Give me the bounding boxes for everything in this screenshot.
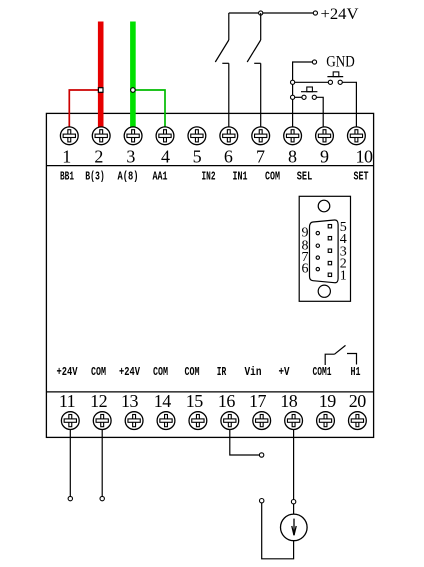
terminal point IR plug <box>259 453 263 457</box>
svg-text:AA1: AA1 <box>153 170 168 184</box>
DB9 connector J1 outline <box>299 196 350 301</box>
DB9 pin 5 <box>328 225 331 228</box>
wire terminal 12 lead <box>101 430 103 497</box>
svg-text:A(8): A(8) <box>118 170 139 184</box>
svg-text:COM: COM <box>265 170 280 184</box>
terminal 11 screw <box>61 412 79 430</box>
terminal 18 screw <box>285 412 303 430</box>
DB9 pin 9 <box>316 231 319 234</box>
wire terminal 11 lead <box>69 430 71 497</box>
terminal point sensor minus <box>260 499 264 503</box>
wire thick green to terminal 3 <box>130 22 136 128</box>
current source / sensor M1 <box>281 514 308 541</box>
svg-text:18: 18 <box>280 391 298 411</box>
svg-text:1: 1 <box>62 147 71 167</box>
pushbutton SB2 (SEL) <box>295 87 318 99</box>
svg-text:6: 6 <box>224 147 233 167</box>
terminal point +24V <box>313 11 317 15</box>
svg-text:H1: H1 <box>351 365 361 379</box>
node green junction <box>131 88 136 93</box>
terminal 19 screw <box>317 412 335 430</box>
DB9 pin 6 <box>316 267 319 270</box>
svg-text:SET: SET <box>354 170 369 184</box>
wire thick red to terminal 2 <box>98 22 104 128</box>
terminal 16 screw <box>221 412 239 430</box>
terminal 15 screw <box>189 412 207 430</box>
svg-text:19: 19 <box>319 391 337 411</box>
DB9 pin 2 <box>328 261 331 264</box>
svg-text:IN2: IN2 <box>202 170 216 184</box>
svg-text:16: 16 <box>218 391 236 411</box>
svg-text:8: 8 <box>288 147 297 167</box>
wire thin green terminal 4 branch <box>133 90 165 128</box>
svg-text:2: 2 <box>94 147 103 167</box>
svg-text:20: 20 <box>349 391 367 411</box>
wire thin red terminal 1 branch <box>69 90 100 128</box>
svg-text:IN1: IN1 <box>233 170 248 184</box>
wire GND junction to pushbutton SB1 <box>293 81 329 83</box>
terminal 12 screw <box>93 412 111 430</box>
node junction on +24V bus <box>259 11 263 15</box>
svg-text:Vin: Vin <box>245 365 262 379</box>
terminal block body U1 <box>46 113 373 437</box>
switch S2 (IN1) <box>247 13 261 63</box>
wire switch S1 to terminal 6 <box>228 63 230 127</box>
terminal point GND <box>312 60 316 64</box>
svg-text:GND: GND <box>326 53 355 70</box>
svg-text:1: 1 <box>340 268 347 283</box>
svg-text:COM: COM <box>185 365 200 379</box>
svg-text:10: 10 <box>356 147 374 167</box>
svg-text:17: 17 <box>249 391 267 411</box>
svg-text:COM1: COM1 <box>313 365 332 379</box>
svg-text:7: 7 <box>256 147 265 167</box>
svg-text:IR: IR <box>217 365 227 379</box>
terminal 3 screw <box>124 127 142 145</box>
svg-text:4: 4 <box>161 147 170 167</box>
bottom label separator line <box>46 391 373 393</box>
svg-text:COM: COM <box>91 365 106 379</box>
svg-text:B(3): B(3) <box>85 170 105 184</box>
svg-text:+24V: +24V <box>321 6 359 23</box>
svg-text:9: 9 <box>320 147 329 167</box>
DB9 pin 8 <box>316 244 319 247</box>
wire terminal 16 (IR) lead <box>230 430 260 456</box>
DB9 pin 7 <box>316 256 319 259</box>
terminal 5 screw <box>188 127 206 145</box>
DB9 mounting hole top <box>318 200 330 212</box>
svg-text:12: 12 <box>90 391 107 411</box>
node red junction <box>98 88 103 93</box>
terminal 10 screw <box>348 127 366 145</box>
pushbutton SB1 (SET) <box>327 72 343 85</box>
svg-text:SEL: SEL <box>297 170 313 184</box>
top label separator line <box>46 165 373 167</box>
relay contact K1 (COM1-H1) <box>325 345 356 365</box>
terminal 2 screw <box>92 127 110 145</box>
terminal 13 screw <box>125 412 143 430</box>
svg-text:6: 6 <box>302 262 309 277</box>
terminal point below 12 <box>100 496 104 500</box>
svg-text:14: 14 <box>154 391 172 411</box>
terminal 9 screw <box>316 127 334 145</box>
wire terminal 18 (+V) lead <box>293 430 295 500</box>
DB9 mounting hole bottom <box>318 285 330 297</box>
wire +24V bus <box>229 12 314 14</box>
terminal point below 11 <box>68 496 72 500</box>
wire sensor plus to meter <box>293 504 295 514</box>
wire SB1 to terminal 10 <box>342 82 356 127</box>
terminal 1 screw <box>60 127 78 145</box>
DB9 shell D outline <box>310 220 339 283</box>
svg-text:3: 3 <box>126 147 135 167</box>
terminal 4 screw <box>156 127 174 145</box>
svg-text:+24V: +24V <box>119 365 141 379</box>
svg-text:11: 11 <box>59 391 75 411</box>
wire sensor minus loop <box>262 503 294 559</box>
svg-text:15: 15 <box>186 391 204 411</box>
terminal 14 screw <box>157 412 175 430</box>
terminal point sensor plus <box>291 500 295 504</box>
svg-text:COM: COM <box>153 365 168 379</box>
wire GND to terminal 8 <box>293 62 313 127</box>
node junction GND/SB1 <box>291 80 295 84</box>
terminal 7 screw <box>252 127 270 145</box>
DB9 pin 1 <box>328 273 331 276</box>
wire switch S2 to terminal 7 <box>260 63 262 127</box>
svg-text:+V: +V <box>279 365 291 379</box>
node junction GND/SB2 <box>291 95 295 99</box>
DB9 pin 3 <box>328 249 331 252</box>
svg-text:13: 13 <box>121 391 139 411</box>
terminal 8 screw <box>284 127 302 145</box>
switch S1 (IN2) <box>215 13 229 63</box>
svg-text:+24V: +24V <box>57 365 79 379</box>
terminal 17 screw <box>253 412 271 430</box>
terminal 6 screw <box>220 127 238 145</box>
DB9 pin 4 <box>328 237 331 240</box>
svg-text:BB1: BB1 <box>60 170 74 184</box>
wire SB2 to terminal 9 <box>316 97 323 127</box>
svg-text:5: 5 <box>193 147 202 167</box>
terminal 20 screw <box>349 412 367 430</box>
